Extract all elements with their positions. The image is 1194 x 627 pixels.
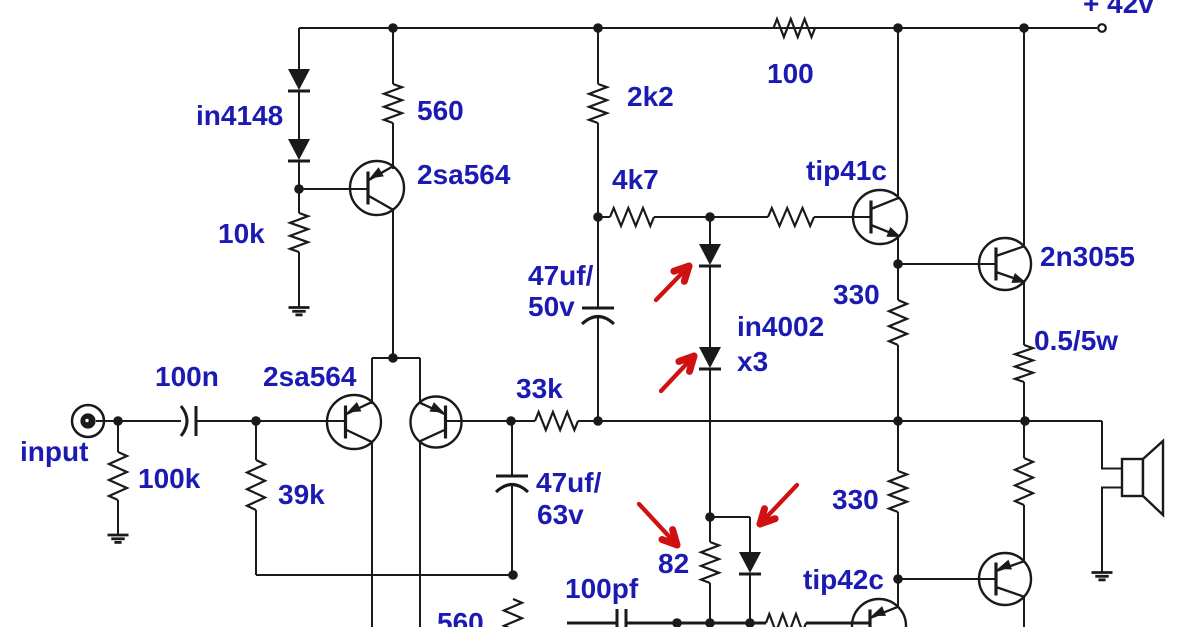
node diff pair emitters <box>388 353 398 363</box>
node bias chain top <box>705 212 715 222</box>
input connector <box>72 405 104 437</box>
svg-text:100: 100 <box>767 58 814 89</box>
resistor 10k <box>290 213 308 252</box>
wire node to drive resistor <box>710 216 768 218</box>
svg-text:47uf/: 47uf/ <box>536 467 602 498</box>
svg-text:+ 42v: + 42v <box>1083 0 1154 19</box>
wire emitter jog <box>372 357 420 359</box>
resistor 4k7 <box>610 208 654 226</box>
svg-text:tip41c: tip41c <box>806 155 887 186</box>
wire to Q2 base <box>256 420 346 422</box>
node bottom rail a <box>672 618 682 627</box>
wire Q1 base <box>299 188 368 190</box>
resistor 0.5/5w <box>1015 345 1033 382</box>
wire output rail to speaker <box>1102 421 1122 469</box>
wire 100k to ground <box>117 421 119 452</box>
annotation arrow at D5 <box>760 485 797 524</box>
resistor 560 <box>384 84 402 123</box>
node Q3 base / 33k / 47uf-63v <box>506 416 516 426</box>
node diode chain / Q1 base <box>294 184 304 194</box>
svg-text:x3: x3 <box>737 346 768 377</box>
node Q2 base / 39k <box>251 416 261 426</box>
svg-text:input: input <box>20 436 88 467</box>
diode D4 in4002 <box>699 347 721 368</box>
resistor 100 <box>774 19 816 37</box>
svg-text:in4148: in4148 <box>196 100 283 131</box>
capacitor C1 100n <box>181 406 187 436</box>
capacitor C3 47uf/63v <box>496 475 528 478</box>
node output rail at 330 <box>893 416 903 426</box>
wire Q1 collector down to tail node <box>392 208 394 358</box>
resistor 82 <box>701 542 719 583</box>
svg-text:82: 82 <box>658 548 689 579</box>
capacitor C4 100pf <box>616 609 619 627</box>
speaker <box>1122 459 1143 496</box>
svg-text:2sa564: 2sa564 <box>263 361 357 392</box>
annotation arrow at D4 <box>661 356 694 391</box>
wire Q3 base <box>446 420 512 422</box>
wire node to 39k <box>255 421 257 460</box>
wire cap to Q2 base node <box>196 420 256 422</box>
wire cap to feedback node <box>511 484 513 575</box>
node tip41c emitter / 330 / 2n3055 base <box>893 259 903 269</box>
resistor 330 upper <box>889 300 907 345</box>
wire 560 to Q1 emitter <box>392 123 394 169</box>
node tip42c emitter / Q7 base <box>893 574 903 584</box>
wire jog to diode D5 <box>749 517 751 552</box>
wire node to cap 47uf-50v <box>597 217 599 308</box>
node output rail at 2k2 cap <box>593 416 603 426</box>
resistor 33k <box>535 412 578 430</box>
resistor 330 lower <box>889 471 907 512</box>
resistor 39k <box>247 460 265 510</box>
svg-text:50v: 50v <box>528 291 575 322</box>
node bottom rail at D5 <box>745 618 755 627</box>
wire feedback row <box>256 574 513 576</box>
wire Q7 emitter resistor <box>1023 421 1025 458</box>
wire resistor to Q7 emitter <box>1023 505 1025 561</box>
svg-text:0.5/5w: 0.5/5w <box>1034 325 1118 356</box>
transistor Q3 2sa564 (right of pair) <box>411 397 462 448</box>
capacitor C2 47uf/50v <box>582 307 614 310</box>
node feedback / 560 lower <box>508 570 518 580</box>
wire 330 lower to emitter node <box>897 512 899 579</box>
svg-text:560: 560 <box>417 95 464 126</box>
diode D3 in4002 <box>699 244 721 265</box>
node top rail at 560 column <box>388 23 398 33</box>
node vas / 4k7 / cap 47uf-50v <box>593 212 603 222</box>
wire node to cap 100n <box>118 420 181 422</box>
wire bias jog <box>710 516 750 518</box>
wire node to 330 upper <box>897 264 899 300</box>
resistor Q7 emitter <box>1015 458 1033 505</box>
wire 4k7 leads <box>598 216 610 218</box>
transistor Q5 2n3055 <box>979 238 1031 290</box>
wire 0.5 resistor to output rail <box>1023 382 1025 421</box>
wire rail to 330 lower <box>897 421 899 471</box>
wire output rail <box>598 420 1102 422</box>
svg-text:33k: 33k <box>516 373 563 404</box>
wire cap to output rail <box>597 315 599 421</box>
wire rail to diode D1 <box>298 28 300 69</box>
wire jog to Q3 emitter <box>419 358 421 404</box>
wire 330 to output rail <box>897 345 899 421</box>
wire D3 to D4 <box>709 267 711 347</box>
wire 39k to feedback row <box>255 510 257 575</box>
wire to 2n3055 base <box>898 263 996 265</box>
node top rail at tip41c collector <box>893 23 903 33</box>
ground under 100k <box>108 534 129 537</box>
svg-text:330: 330 <box>832 484 879 515</box>
diode D5 in4002 <box>739 552 761 573</box>
svg-text:100n: 100n <box>155 361 219 392</box>
ground under 10k <box>289 306 310 309</box>
wire Q3 collector down <box>419 442 421 627</box>
wire node to 82 <box>709 517 711 542</box>
wire node to cap 47uf-63v <box>511 421 513 476</box>
wire jack to node <box>96 420 118 422</box>
wire bottom rail mid <box>626 622 766 625</box>
wire tip41c collector to rail <box>897 28 899 199</box>
annotation arrow at D3 <box>656 266 689 300</box>
wire 33k leads <box>511 420 535 422</box>
node input / 100k <box>113 416 123 426</box>
wire rail to 560 <box>392 28 394 84</box>
transistor Q7 output pnp <box>979 553 1031 605</box>
diode D1 in4148 <box>288 69 310 90</box>
node top rail at 2n3055 collector <box>1019 23 1029 33</box>
transistor Q4 tip41c <box>853 190 907 244</box>
wire bottom rail left <box>567 622 617 625</box>
wire top supply rail <box>299 27 1097 29</box>
svg-text:63v: 63v <box>537 499 584 530</box>
ground under speaker <box>1092 571 1113 574</box>
wire 2k2 to vas node <box>597 123 599 217</box>
wire 2n3055 collector to rail <box>1023 28 1025 246</box>
wire node to 10k <box>298 189 300 213</box>
svg-text:2k2: 2k2 <box>627 81 674 112</box>
resistor drive (tip41c base) <box>768 208 814 226</box>
resistor bottom (tip42c base) <box>766 614 806 627</box>
node output rail at 0.5 resistor <box>1020 416 1030 426</box>
wire bottom rail to tip42c base <box>806 622 870 625</box>
svg-text:2sa564: 2sa564 <box>417 159 511 190</box>
wire speaker return to ground <box>1102 488 1122 573</box>
diode D2 in4148 <box>288 139 310 160</box>
wire 82 to bottom rail <box>709 583 711 623</box>
annotation arrow at 82 <box>639 504 677 545</box>
transistor Q1 2sa564 <box>350 161 404 215</box>
resistor 100k <box>109 452 127 500</box>
wire rail to 2k2 <box>597 28 599 84</box>
wire Q2 collector down <box>371 441 373 627</box>
node bias lower <box>705 512 715 522</box>
resistor 2k2 <box>589 84 607 123</box>
svg-text:4k7: 4k7 <box>612 164 659 195</box>
svg-text:in4002: in4002 <box>737 311 824 342</box>
transistor Q6 tip42c <box>852 599 906 627</box>
wire Q7 collector down <box>1023 597 1025 627</box>
svg-text:100pf: 100pf <box>565 573 639 604</box>
svg-text:330: 330 <box>833 279 880 310</box>
wire node to tip42c emitter <box>897 579 899 606</box>
wire to Q7 base <box>898 578 996 580</box>
wire 2n3055 emitter to 0.5 resistor <box>1023 282 1025 345</box>
svg-text:47uf/: 47uf/ <box>528 260 594 291</box>
wire D5 to bottom rail <box>749 575 751 623</box>
node top rail at 2k2 column <box>593 23 603 33</box>
resistor 560 lower <box>504 599 522 627</box>
wire D2 to base node <box>298 162 300 189</box>
+42v supply terminal <box>1098 24 1106 32</box>
wire drive resistor to tip41c base <box>814 216 871 218</box>
wire node to diode D3 <box>709 217 711 244</box>
wire 10k to ground <box>298 252 300 307</box>
svg-text:560: 560 <box>437 607 484 627</box>
transistor Q2 2sa564 (left of pair) <box>327 395 381 449</box>
wire D1 to D2 <box>298 92 300 139</box>
wire jog to Q2 emitter <box>371 358 373 404</box>
wire D4 down across rail to bias node <box>709 370 711 517</box>
svg-text:2n3055: 2n3055 <box>1040 241 1135 272</box>
wire tip41c emitter to node <box>897 236 899 264</box>
svg-text:39k: 39k <box>278 479 325 510</box>
node bottom rail at 82 <box>705 618 715 627</box>
svg-text:10k: 10k <box>218 218 265 249</box>
svg-text:100k: 100k <box>138 463 201 494</box>
svg-text:tip42c: tip42c <box>803 564 884 595</box>
